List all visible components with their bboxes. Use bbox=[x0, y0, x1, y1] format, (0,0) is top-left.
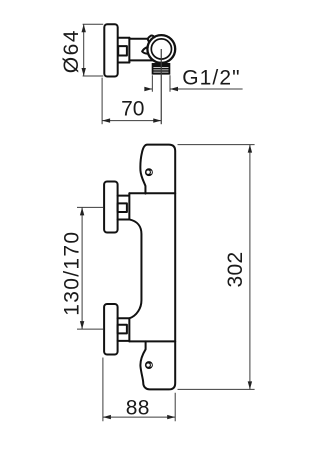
dim extension lines D64 bbox=[83, 24, 104, 76]
knob grip tab left spike bbox=[142, 47, 148, 54]
arrowheads 130/170 bbox=[80, 207, 84, 215]
upper boss (collar) bbox=[118, 193, 130, 219]
svg-text:70: 70 bbox=[121, 98, 144, 121]
screw hole lower bbox=[145, 361, 153, 369]
lower neck square bbox=[118, 325, 127, 334]
arrowheads D64 bbox=[82, 24, 86, 32]
arrowheads 70 bbox=[102, 118, 110, 122]
dim line 302 bbox=[249, 145, 251, 390]
threaded outlet body G1/2 (top view) bbox=[152, 63, 171, 75]
upper neck square bbox=[118, 203, 127, 212]
union collar lines (top view) bbox=[118, 38, 129, 63]
thread crest lines bbox=[153, 67, 168, 72]
dim line D64 bbox=[83, 24, 85, 76]
bottom joint line bbox=[129, 340, 175, 342]
screw hole upper bbox=[145, 168, 153, 176]
knob inner circle bbox=[151, 39, 171, 59]
collar face (top view) bbox=[128, 38, 130, 63]
mixer body outline bbox=[140, 145, 175, 390]
lower wall flange bbox=[104, 304, 118, 355]
dim extension lines 302 bbox=[178, 145, 255, 390]
dim extension lines 130/170 bbox=[77, 207, 103, 329]
svg-text:Ø64: Ø64 bbox=[60, 29, 83, 73]
lower boss (collar) bbox=[118, 318, 130, 341]
body bottom line (top view) bbox=[129, 59, 153, 61]
svg-text:130/170: 130/170 bbox=[60, 231, 83, 316]
knob grip tab upper bbox=[148, 36, 155, 43]
dim line 130/170 bbox=[81, 207, 83, 329]
top joint line bbox=[129, 192, 175, 194]
dim extension lines G1/2 bbox=[152, 75, 170, 91]
svg-text:88: 88 bbox=[126, 397, 150, 420]
bar left edge between bosses bbox=[129, 219, 141, 318]
wall flange (top view) bbox=[104, 24, 117, 76]
centerline of outlet bbox=[160, 49, 162, 124]
dim line 88 bbox=[103, 416, 175, 418]
body top line (top view) bbox=[129, 38, 147, 40]
svg-text:302: 302 bbox=[224, 252, 247, 288]
neck square (top view) bbox=[118, 46, 127, 55]
dim extension lines 88 bbox=[103, 358, 175, 422]
dim line 70 bbox=[102, 120, 161, 122]
dim extension wall line 70 bbox=[101, 78, 103, 125]
svg-text:G1/2": G1/2" bbox=[182, 67, 240, 90]
upper wall flange bbox=[104, 182, 118, 233]
arrowheads 302 bbox=[248, 145, 252, 153]
arrowheads 88 bbox=[103, 415, 111, 419]
dim line G1/2 bbox=[146, 88, 242, 90]
arrowheads G1/2 bbox=[144, 87, 152, 91]
knob outer circle U bbox=[147, 35, 175, 63]
